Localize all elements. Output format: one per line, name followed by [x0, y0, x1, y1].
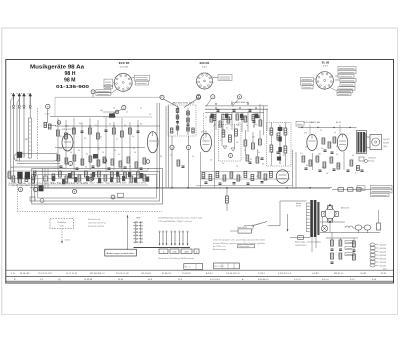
svg-text:Ba 403-404 ab: Ba 403-404 ab: [231, 102, 249, 104]
bias band parts row 1: [202, 172, 261, 182]
node marker B right: [237, 95, 241, 99]
tube V4 EABC80: [276, 170, 288, 184]
messwerte note: [88, 218, 106, 228]
svg-text:W1 W1 W2L L2: W1 W1 W2L L2: [90, 273, 105, 275]
tube V3 right label box 6: [338, 87, 355, 90]
svg-text:RL RL W5: RL RL W5: [20, 273, 30, 275]
AM cap Cc: [249, 110, 252, 111]
svg-text:110/125/220 V: 110/125/220 V: [295, 245, 307, 247]
svg-text:1/2 EABC 80: 1/2 EABC 80: [304, 121, 320, 124]
mid parts between boxes: [244, 139, 264, 163]
svg-text:25: 25: [109, 123, 111, 125]
svg-text:Ta: Ta: [163, 251, 165, 253]
node marker 9: [229, 154, 233, 158]
svg-text:UKW: UKW: [136, 217, 141, 219]
tube V2 right label box: [213, 75, 233, 81]
svg-text:Gedruckte Schaltung 98/Rücksei: Gedruckte Schaltung 98/Rückseite: [158, 257, 194, 260]
svg-text:50: 50: [270, 130, 272, 132]
svg-text:52 Hz: 52 Hz: [296, 206, 301, 208]
svg-text:01-136-900: 01-136-900: [56, 84, 90, 89]
power row label box 2: [371, 189, 393, 193]
svg-text:2k: 2k: [284, 132, 286, 134]
svg-text:1n 15k: 1n 15k: [45, 113, 50, 115]
svg-text:(90-60): (90-60): [368, 161, 374, 163]
svg-text:1/2 ECC 85: 1/2 ECC 85: [62, 129, 76, 131]
svg-text:Musikgeräte 98 Aa: Musikgeräte 98 Aa: [30, 65, 85, 71]
svg-text:10k: 10k: [59, 148, 62, 150]
resistor R6: [65, 133, 68, 139]
svg-text:40: 40: [124, 125, 126, 127]
component value labels: [58, 117, 354, 170]
svg-text:2.Freq(546Hz-15g)7 achse: 2.Freq(546Hz-15g)7 achse: [158, 220, 192, 223]
svg-text:30: 30: [98, 148, 100, 150]
netz spannung note: [295, 241, 322, 247]
wire run y163: [17, 163, 60, 165]
svg-text:6,3 V: 6,3 V: [323, 66, 328, 68]
AF box center chain: [277, 125, 282, 164]
node marker 7: [196, 95, 200, 99]
svg-text:EL 95: EL 95: [336, 122, 341, 124]
svg-text:30: 30: [306, 165, 308, 167]
FM dark part: [93, 154, 98, 159]
tube V1 socket ECC85: [114, 73, 133, 92]
svg-text:P1 + a: P1 + a: [185, 267, 190, 269]
switch arrow line: [127, 215, 129, 250]
svg-text:C5 W1: C5 W1: [360, 273, 367, 275]
keyboard switch key 2: [170, 249, 179, 254]
svg-text:0 000-000: 0 000-000: [379, 265, 387, 267]
legend small table left: [184, 264, 203, 270]
audio left label box: [296, 122, 304, 127]
title line 1: [30, 65, 85, 71]
filter cap 1: [355, 225, 362, 233]
tube V3 socket EL95: [315, 71, 334, 90]
AM bus y104: [205, 105, 268, 107]
keyboard switch key 3: [181, 249, 192, 254]
UKW label: [136, 217, 141, 219]
svg-text:25: 25: [63, 168, 65, 170]
ratio detector dashed box: [219, 125, 242, 162]
capacitor C12: [105, 130, 108, 131]
antenna wire 4: [18, 108, 20, 161]
svg-text:Abweichungen: Abweichungen: [213, 248, 226, 251]
tube V1a triode: [62, 134, 73, 151]
resistor R12: [129, 128, 132, 134]
resistor R7: [73, 128, 76, 134]
node marker A2: [18, 187, 22, 191]
svg-text:6,3 V: 6,3 V: [202, 67, 207, 69]
node marker 2 right of V1: [160, 95, 164, 99]
audio texts: [300, 153, 338, 175]
IF transformer Fi1 dashed box: [168, 105, 196, 136]
svg-text:30: 30: [271, 152, 273, 154]
nested loop box inner: [38, 175, 157, 199]
svg-text:Zeichnungen vor jeweilig abwei: Zeichnungen vor jeweilig abweichender: [213, 240, 265, 242]
svg-text:25: 25: [244, 150, 246, 152]
legend small table right: [214, 263, 240, 269]
tube V5 EABC triode: [307, 135, 317, 151]
FM half-tube label: [62, 129, 76, 131]
speaker box: [370, 135, 382, 150]
mains transformer windings: [307, 203, 310, 232]
svg-text:50: 50: [305, 146, 307, 148]
scanned page top edge: [2, 27, 398, 29]
svg-text:2k: 2k: [102, 152, 104, 154]
tube V6 EL95 body: [337, 134, 347, 151]
svg-text:25: 25: [205, 117, 207, 119]
svg-text:Netztr.: Netztr.: [296, 202, 302, 205]
loop area small part: [30, 197, 44, 203]
svg-text:CL L1 2L W: CL L1 2L W: [66, 273, 77, 275]
svg-text:46: 46: [226, 128, 228, 130]
tube V2 body EF89: [201, 133, 212, 152]
svg-text:0,1: 0,1: [218, 176, 220, 178]
svg-text:0 000-000: 0 000-000: [379, 258, 387, 260]
legend divider upper: [6, 269, 394, 271]
svg-text:50: 50: [84, 138, 86, 140]
tube V3 bottom boxes: [330, 88, 353, 96]
power wires: [320, 210, 380, 232]
Aenderungen box: [105, 249, 137, 256]
AM coil box: [222, 115, 232, 120]
antenna wire 7 dashed: [37, 108, 39, 160]
svg-text:5 E. W 5 B 5 D: 5 E. W 5 B 5 D: [226, 273, 240, 275]
wire diagonal node4: [206, 99, 212, 107]
AF box cap: [277, 152, 280, 153]
frame bottom inner line: [6, 280, 394, 282]
tube V3 right label box 2: [338, 70, 356, 73]
input transformer: [17, 172, 35, 180]
AM resistor Ra: [213, 115, 216, 121]
power resistor row: [332, 188, 371, 192]
bus vertical x48: [54, 97, 56, 116]
AF box resistor 5: [284, 146, 287, 153]
tube V2 socket ECH81: [196, 73, 214, 90]
band switch contact rows: [133, 221, 142, 243]
IF Fi1 label: [173, 102, 196, 105]
wire node5 drop: [92, 94, 94, 97]
tube V1 left label box: [104, 79, 114, 87]
dark blob at band bottom: [39, 185, 44, 191]
keyboard switch plungers: [159, 231, 189, 246]
svg-text:2n: 2n: [95, 125, 97, 127]
AM cap Cd: [257, 116, 260, 117]
AM bus y112: [205, 112, 264, 114]
antenna connector forks: [12, 105, 31, 109]
AM extra texts: [226, 125, 248, 130]
svg-text:A 5 B 9: A 5 B 9: [206, 272, 214, 275]
svg-text:L26 C6 K6: L26 C6 K6: [141, 273, 152, 275]
svg-text:0,1: 0,1: [283, 154, 285, 156]
svg-text:F 0 R W 5 C 0: F 0 R W 5 C 0: [278, 273, 292, 275]
svg-text:7k: 7k: [24, 155, 26, 157]
wires right of box2: [201, 115, 297, 188]
output transformer windings: [357, 132, 366, 153]
node marker F: [46, 104, 50, 123]
svg-text:UKW/M Spannkreis Ku.7x27 0,8: UKW/M Spannkreis Ku.7x27 0,8: [158, 217, 202, 220]
tube V1 right label box 1: [132, 75, 149, 81]
tube V1 label ECC 85: [119, 61, 130, 68]
svg-text:30: 30: [113, 108, 115, 110]
node marker E2: [72, 189, 76, 193]
Netz label box: [230, 226, 254, 233]
svg-text:(302): (302): [383, 146, 388, 148]
AM small texts: [214, 123, 257, 126]
svg-text:1n: 1n: [107, 168, 109, 170]
shielded cable loop: [14, 154, 58, 162]
svg-text:0,1: 0,1: [236, 142, 238, 144]
svg-text:6k: 6k: [100, 136, 102, 138]
tube V3 left label box 1: [301, 78, 317, 81]
svg-text:1k: 1k: [67, 125, 69, 127]
AM cap Cb: [233, 110, 236, 111]
speaker cone: [372, 138, 380, 146]
svg-text:UKW?: UKW?: [184, 251, 189, 253]
svg-text:0 000-000: 0 000-000: [379, 248, 387, 250]
right strip small parts: [355, 166, 364, 175]
AM resistor Rc: [244, 116, 247, 122]
svg-text:10k: 10k: [304, 132, 307, 134]
wire junction dots: [65, 103, 350, 188]
tube V1 bottom-left label box 1: [96, 85, 113, 92]
svg-text:2k: 2k: [250, 159, 252, 161]
antenna input arrows: [11, 93, 32, 105]
keyboard band components: [52, 172, 149, 185]
tube V3 right label box 5: [340, 83, 355, 86]
legend row 2 text: [14, 278, 377, 281]
output transformer core: [357, 131, 367, 154]
bus wire y116: [50, 113, 116, 125]
svg-text:2n: 2n: [245, 117, 247, 119]
wire run y167: [14, 166, 61, 168]
svg-text:1k: 1k: [56, 153, 58, 155]
svg-text:0 000-000: 0 000-000: [379, 251, 387, 253]
svg-text:0,1: 0,1: [129, 166, 131, 168]
svg-text:25: 25: [338, 165, 340, 167]
nested loop box mid: [35, 172, 160, 202]
svg-text:1k: 1k: [192, 156, 194, 158]
keyboard switch key 4: [194, 249, 199, 254]
wire diagonal node2 to IF box: [163, 99, 179, 108]
AM extra parts: [210, 116, 262, 127]
AM resistor Rb: [236, 114, 239, 120]
title line 3: [64, 78, 76, 84]
svg-text:5k 1n 30 0,1 25 2k 50 1n5 5p 0: 5k 1n 30 0,1 25 2k 50 1n5 5p 0,5 10k 1n …: [50, 182, 146, 184]
node marker 1 in loop: [111, 193, 123, 199]
rectifier label: [341, 208, 349, 210]
ratio det resistor 2: [229, 135, 232, 142]
ratio det diode 2: [231, 148, 235, 151]
svg-text:C5 C9 C5 C23: C5 C9 C5 C23: [38, 273, 52, 275]
IF bottom parts: [177, 160, 185, 167]
power row left box: [357, 186, 365, 191]
svg-text:Röhrenvoltm.: Röhrenvoltm.: [239, 245, 251, 248]
motor lead label: [65, 240, 71, 242]
node marker 5: [91, 90, 95, 94]
svg-text:1n: 1n: [126, 111, 128, 113]
below-transformer part: [359, 157, 368, 163]
resistor 2M: [25, 118, 32, 158]
svg-text:ECH 81: ECH 81: [200, 61, 210, 65]
svg-text:0,1: 0,1: [78, 150, 80, 152]
node marker C in FM: [69, 162, 73, 166]
svg-text:bei 220V~ mit: bei 220V~ mit: [213, 245, 226, 248]
AF dashed box: [267, 123, 292, 167]
svg-text:34-328: 34-328: [383, 143, 389, 145]
dial lamp: [321, 225, 327, 231]
svg-text:0 000-000: 0 000-000: [379, 262, 387, 264]
svg-text:G 9 B5: G 9 B5: [312, 273, 319, 275]
svg-text:4,5kV NF- 50/25V: 4,5kV NF- 50/25V: [88, 226, 105, 228]
svg-text:0,5: 0,5: [149, 114, 151, 116]
AM extra wires: [223, 112, 254, 134]
voltage selector chain 3: [353, 241, 356, 260]
keyboard switch key 1: [159, 249, 168, 254]
audio coupling parts: [322, 137, 336, 153]
svg-text:Netzspg. umschaltbar: Netzspg. umschaltbar: [295, 241, 322, 244]
AF box resistor 3: [284, 128, 287, 135]
rectifier bridge: [322, 204, 339, 223]
svg-text:50: 50: [210, 159, 212, 161]
node marker b below V1: [113, 106, 126, 114]
node marker G on band: [89, 177, 93, 181]
node marker 6: [57, 121, 61, 125]
antenna wire 1: [11, 97, 14, 180]
svg-text:5k: 5k: [258, 152, 260, 154]
speaker wires: [367, 137, 371, 148]
input parts row: [12, 176, 34, 184]
svg-text:B250 C75: B250 C75: [341, 208, 349, 210]
svg-text:1n: 1n: [118, 154, 120, 156]
filter cap 2: [364, 225, 371, 233]
svg-text:25 W: 25 W: [381, 273, 386, 275]
IF Fi1 side parts: [171, 128, 195, 133]
node marker 10: [170, 145, 174, 149]
legend divider lower: [6, 275, 394, 277]
title line 2: [65, 71, 76, 77]
lower band wires: [8, 171, 148, 185]
voltage selector boxes: [345, 241, 354, 256]
node marker a below V2: [197, 95, 201, 99]
band tiny text row: [50, 182, 146, 184]
tube V3 left label box 2: [301, 82, 314, 85]
scanned page left edge: [1, 28, 3, 315]
antenna wire 2: [13, 108, 15, 176]
svg-text:1n: 1n: [133, 148, 135, 150]
svg-text:98 M: 98 M: [64, 78, 76, 84]
svg-text:05 R6 C5: 05 R6 C5: [162, 273, 172, 275]
svg-text:5k: 5k: [202, 177, 204, 179]
svg-text:0,5: 0,5: [60, 136, 62, 138]
bias band parts row 2: [264, 172, 272, 181]
bias band texts: [202, 176, 259, 179]
bias band caps: [205, 182, 264, 185]
svg-text:W5 R1 L5: W5 R1 L5: [334, 273, 344, 275]
svg-text:30: 30: [160, 156, 162, 158]
AM label small: [11, 166, 14, 169]
node marker I2: [33, 187, 37, 191]
svg-text:R1 C3 C5 OP: R1 C3 C5 OP: [116, 273, 129, 275]
mains switch: [244, 222, 280, 227]
FM lower caps: [60, 166, 143, 169]
chassis dashed left vertical: [16, 172, 18, 211]
svg-text:UKW: UKW: [173, 251, 177, 253]
motor dashed lead: [61, 229, 63, 244]
svg-text:9,5: 9,5: [220, 140, 222, 142]
antenna tiny labels: [44, 113, 51, 129]
right strip text: [368, 158, 376, 163]
AF box wires: [272, 123, 286, 167]
audio tube drops: [313, 152, 344, 170]
svg-text:5k: 5k: [147, 168, 149, 170]
svg-text:G: G: [90, 179, 92, 181]
power row label box 1: [371, 185, 393, 189]
FM section value texts: [56, 152, 136, 156]
voltage selector chain 1: [331, 240, 334, 263]
AM bus y108: [205, 108, 268, 110]
keyboard bus bar: [134, 247, 191, 249]
node marker 3: [115, 110, 119, 114]
switch note line 2: [158, 220, 192, 223]
node marker 4 below V2: [211, 95, 215, 99]
svg-text:50: 50: [326, 173, 328, 175]
resistor R8: [89, 128, 92, 134]
svg-text:0 000-000: 0 000-000: [379, 244, 387, 246]
audio lower parts: [302, 156, 353, 169]
svg-text:Änderungen vorbehalten: Änderungen vorbehalten: [107, 252, 135, 255]
AF box resistor 1: [270, 128, 273, 135]
IF box drop wires: [172, 136, 189, 188]
node marker 8: [186, 145, 190, 149]
AM dashed vertical: [203, 113, 205, 140]
chassis dashed line: [17, 210, 162, 212]
svg-text:C5 R6 W: C5 R6 W: [182, 273, 190, 275]
ratio det resistor 3: [235, 129, 238, 136]
tube V3 left label box 3: [302, 86, 313, 89]
AM under-bus blobs: [211, 114, 259, 119]
svg-text:1n: 1n: [334, 132, 336, 134]
svg-text:0 000-000: 0 000-000: [379, 255, 387, 257]
coupling coil L1: [17, 152, 26, 158]
svg-text:1,5k Ω: 1,5k Ω: [65, 240, 71, 242]
svg-text:30: 30: [134, 152, 136, 154]
selector wires: [326, 238, 358, 241]
FM section wire grid: [55, 118, 160, 172]
lower band text row: [8, 183, 88, 185]
svg-text:1n: 1n: [246, 125, 248, 127]
tube V1 right label box 2: [135, 81, 148, 85]
mains riser wire: [280, 201, 307, 226]
svg-text:5k: 5k: [321, 148, 323, 150]
ratio det wires: [222, 125, 235, 149]
antenna wire 6: [29, 108, 31, 118]
nested loop box outer: [32, 169, 163, 205]
scanned page right edge: [396, 28, 398, 315]
svg-text:P0 1 2 3 4 5: P0 1 2 3 4 5: [215, 266, 225, 268]
bus wire y97: [55, 96, 162, 98]
title part number: [56, 84, 90, 89]
main bus y188: [30, 188, 332, 189]
svg-text:50: 50: [213, 125, 215, 127]
svg-text:25: 25: [320, 130, 322, 132]
AF box resistor 4: [270, 145, 273, 152]
resistor R11: [121, 131, 124, 137]
audio bus y127: [298, 127, 357, 129]
svg-text:L 836-327: L 836-327: [368, 158, 376, 160]
svg-text:2p: 2p: [132, 136, 134, 138]
svg-text:0,1: 0,1: [336, 146, 338, 148]
wire diagonal nodeB: [232, 99, 239, 107]
